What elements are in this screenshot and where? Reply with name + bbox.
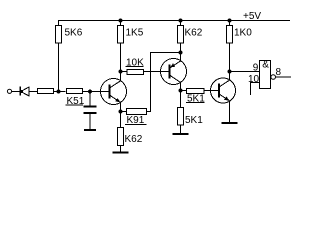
wire gate pin 10 bbox=[251, 83, 260, 96]
wire T3 emitter down bbox=[229, 101, 231, 123]
wire T2 bottom to node F bbox=[180, 82, 182, 90]
resistor K91 bbox=[127, 109, 147, 115]
svg-text:K62: K62 bbox=[125, 134, 143, 145]
resistor 1K5 bbox=[118, 26, 124, 44]
wire 5K6 column top bbox=[58, 20, 60, 26]
junction node E bbox=[88, 89, 92, 93]
resistor 5K6 bbox=[56, 26, 62, 44]
wire T1 emitter down bbox=[120, 102, 122, 111]
wire node F to 5K1 horizontal bbox=[181, 90, 187, 92]
junction rail-1K0 bbox=[227, 18, 231, 22]
resistor 5K1 horizontal bbox=[187, 89, 205, 94]
wire 1K5 bottom to node B bbox=[120, 43, 122, 72]
svg-text:+5V: +5V bbox=[243, 11, 261, 22]
resistor K62 upper bbox=[178, 26, 184, 44]
diode D1 bbox=[19, 87, 21, 96]
ground below capacitor bbox=[84, 129, 96, 131]
resistor 5K1 vertical bbox=[178, 108, 184, 126]
wire 1K5 column top bbox=[120, 21, 122, 26]
junction node B bbox=[118, 69, 122, 73]
junction rail-K62 bbox=[178, 18, 182, 22]
wire K62 lower to ground bbox=[120, 146, 122, 152]
capacitor C1 wire from node E bbox=[89, 92, 91, 106]
wire node B to 10K bbox=[121, 71, 128, 73]
wire to node A bbox=[54, 91, 66, 93]
wire K62 column top bbox=[180, 21, 182, 26]
wire 1K0 column top bbox=[229, 21, 231, 26]
resistor 10K bbox=[127, 70, 144, 75]
wire +5V power rail bbox=[59, 20, 291, 22]
wire input to diode bbox=[12, 91, 20, 93]
svg-text:5K6: 5K6 bbox=[65, 27, 83, 38]
wire 5K6 bottom to input node bbox=[58, 43, 60, 92]
resistor K51 bbox=[67, 89, 83, 94]
wire K91 right up to node C bbox=[147, 53, 181, 112]
resistor 1K0 bbox=[227, 26, 233, 44]
transistor T1 bbox=[101, 79, 127, 105]
wire K62 bottom to node C bbox=[180, 43, 182, 53]
ground below K62 bbox=[113, 152, 129, 154]
junction node A bbox=[56, 89, 60, 93]
svg-text:K51: K51 bbox=[67, 96, 85, 107]
wire T1 collector to node B bbox=[120, 72, 122, 81]
capacitor C1 bbox=[84, 106, 97, 108]
wire node E to T1 base bbox=[90, 91, 110, 93]
wire 5K1 vertical to ground bbox=[180, 125, 182, 134]
wire T3 collector to node D bbox=[229, 72, 231, 81]
svg-text:&: & bbox=[262, 60, 269, 71]
gate output inversion bubble bbox=[271, 75, 276, 80]
wire 5K1 to T3 base bbox=[204, 90, 219, 92]
terminal input bbox=[7, 89, 11, 93]
svg-text:5K1: 5K1 bbox=[185, 115, 203, 126]
gate U1 NAND body bbox=[260, 61, 271, 89]
svg-text:9: 9 bbox=[253, 63, 259, 74]
wire T2 top to node C bbox=[180, 53, 182, 62]
transistor T3 bbox=[211, 78, 236, 103]
wire 1K0 bottom to node D bbox=[229, 43, 231, 72]
wire gate output pin 8 bbox=[276, 76, 292, 78]
transistor T2 (PNP) bbox=[161, 59, 187, 85]
svg-text:8: 8 bbox=[276, 67, 282, 78]
wire K51 to node E bbox=[82, 91, 90, 93]
wire node F down to 5K1 vertical bbox=[180, 91, 182, 108]
wire node D to gate pin 9 bbox=[230, 71, 260, 73]
wire T1 emitter node to K91 bbox=[121, 111, 127, 113]
junction rail-1K5 bbox=[118, 18, 122, 22]
svg-text:K62: K62 bbox=[185, 27, 203, 38]
ground below 5K1 bbox=[173, 133, 189, 135]
resistor K62 lower bbox=[118, 128, 124, 146]
wire T1 emitter node down to K62 bbox=[120, 112, 122, 128]
ground below T3 bbox=[222, 122, 238, 124]
junction node F bbox=[178, 88, 182, 92]
svg-text:1K0: 1K0 bbox=[234, 27, 252, 38]
junction node D bbox=[227, 69, 231, 73]
svg-text:10: 10 bbox=[248, 74, 260, 85]
junction T1 emitter node bbox=[118, 109, 122, 113]
resistor R-input bbox=[38, 89, 54, 94]
svg-text:1K5: 1K5 bbox=[126, 27, 144, 38]
wire 10K to T2 base bbox=[144, 71, 170, 73]
wire diode to input resistor bbox=[29, 91, 37, 93]
junction node C bbox=[178, 50, 182, 54]
wire capacitor to ground bbox=[89, 114, 91, 130]
